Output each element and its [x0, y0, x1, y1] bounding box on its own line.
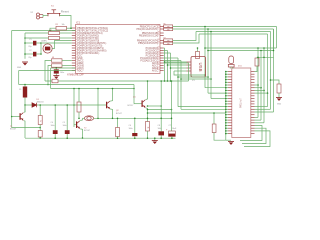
IC2 left pin stub y=82.3 — [228, 81, 232, 83]
IC2 right pin stub y=106.6 — [251, 106, 255, 108]
wire C4 top — [54, 105, 56, 130]
fuse F2 oval — [84, 116, 93, 121]
IC1 right pin stub y=50.5 — [160, 50, 164, 52]
wire T2 emitter — [80, 129, 82, 138]
wire ic pin53 right — [164, 52, 171, 54]
wire hook2 — [242, 128, 266, 143]
junction C7 rail — [171, 137, 173, 139]
IC2 right pin stub y=87.7 — [251, 87, 255, 89]
svg-text:ATMEGA8_DIP: ATMEGA8_DIP — [67, 74, 84, 77]
wire fuse bottom — [24, 98, 26, 113]
wire pin70 drop — [18, 71, 20, 85]
wire R4 left — [45, 61, 52, 82]
wire R18 bottom — [214, 133, 226, 141]
junction IC2 col y=87.7 — [225, 87, 227, 89]
wire C7 bottom — [171, 136, 173, 138]
IC1 right pin stub y=55.5 — [160, 55, 164, 57]
IC2 left pin stub y=74.2 — [228, 73, 232, 75]
wire usb d+ — [168, 64, 187, 66]
wire v178 to IC2 — [178, 106, 226, 108]
wire T2 base — [74, 124, 76, 126]
junction IC2 col y=93.1 — [225, 92, 227, 94]
svg-text:10k: 10k — [62, 24, 65, 26]
IC2 left pin stub y=117.4 — [228, 116, 232, 118]
wire usb d- — [165, 61, 187, 63]
svg-text:Reset: Reset — [61, 10, 69, 14]
wire R4 to pin — [62, 60, 72, 62]
wire v270 down — [270, 32, 272, 110]
resistor R11 — [164, 25, 173, 28]
svg-text:BC557: BC557 — [128, 105, 134, 107]
wire bus y48 — [205, 47, 277, 49]
crystal Q1 — [43, 44, 52, 53]
wire R6 chain top — [39, 105, 41, 116]
junction R6R7 x40 — [39, 127, 41, 129]
junction C8 y118 — [160, 118, 162, 120]
wire xtal gnd stem — [24, 58, 26, 59]
junction IC2 col y=82.3 — [225, 82, 227, 84]
IC2 right pin stub y=90.4 — [251, 89, 255, 91]
capacitor C2 — [33, 52, 36, 57]
junction C6 rail — [134, 137, 136, 139]
junction v178 y77 — [177, 76, 179, 78]
svg-text:ZX1: ZX1 — [238, 66, 243, 68]
junction R15 y48 — [197, 47, 199, 49]
junction IC2 col y=101.2 — [225, 100, 227, 102]
wire IC2 left pin wire y=101.2 — [226, 100, 228, 102]
wire vertical x74 — [73, 89, 75, 128]
wire bus y26.5 — [173, 26, 277, 28]
IC2 left pin stub y=90.4 — [228, 89, 232, 91]
wire C8 bottom — [160, 135, 162, 138]
wire Q3 leg1 — [229, 67, 231, 69]
svg-text:F1: F1 — [19, 89, 21, 91]
IC2 right pin stub y=85.0 — [251, 84, 255, 86]
junction v205 y75 — [204, 74, 206, 76]
junction IC2 col y=76.9 — [225, 76, 227, 78]
IC2 left pin stub y=114.7 — [228, 114, 232, 116]
IC1 left pin stub y=33 — [72, 32, 76, 34]
IC2 left pin stub y=98.5 — [228, 98, 232, 100]
junction R10 tap118 — [147, 118, 149, 120]
junction R9 rail — [117, 137, 119, 139]
transistor Q2 — [106, 101, 110, 109]
wire pin87 — [255, 87, 262, 89]
ground IC2 — [228, 142, 234, 145]
svg-text:C4: C4 — [51, 122, 53, 124]
wire IC2 left pin wire y=87.7 — [226, 87, 228, 89]
wire Q1 base — [134, 103, 142, 105]
resistor R8 — [77, 102, 81, 112]
wire pin70 left — [19, 70, 76, 72]
wire C6 top — [134, 118, 136, 133]
capacitor C4 — [53, 130, 58, 134]
wire R17 top wire — [271, 80, 280, 84]
junction v264 pin90 — [263, 90, 265, 92]
wire IC2 left pin wire y=122.8 — [226, 122, 228, 124]
wire X2 join to switch — [43, 15, 48, 17]
junction IC2 col y=95.8 — [225, 95, 227, 97]
wire R8 bottom — [78, 112, 80, 118]
IC1 right pin stub y=33 — [160, 32, 164, 34]
svg-text:27: 27 — [157, 28, 159, 30]
wire R16 top — [256, 56, 258, 59]
wire R2 to pin — [60, 32, 72, 34]
resistor R9 — [116, 128, 120, 137]
wire v181 — [180, 61, 182, 110]
junction R10 rail — [147, 137, 149, 139]
junction v258 y48 — [257, 47, 259, 49]
resistor R5 — [52, 64, 63, 67]
wire v211 down — [210, 32, 212, 99]
wire IC2 left pin wire y=82.3 — [226, 81, 228, 83]
IC1 right pin stub y=60.5 — [160, 60, 164, 62]
svg-text:BC547: BC547 — [84, 130, 91, 132]
wire usb gnd route — [174, 71, 205, 75]
wire IC2 left pin wire y=90.4 — [226, 89, 228, 91]
wire x134 down — [133, 85, 135, 104]
resistor R2 — [49, 31, 60, 34]
wire xtal left node — [40, 43, 42, 54]
junction v267 pin93 — [267, 92, 269, 94]
wire Q1 emitter — [146, 108, 148, 122]
IC2 right pin stub y=79.6 — [251, 79, 255, 81]
svg-text:USB: USB — [198, 62, 203, 71]
svg-text:100n: 100n — [60, 72, 64, 74]
wire hook1 — [240, 126, 262, 141]
junction v170 pin — [170, 67, 172, 69]
capacitor C7 — [169, 131, 176, 136]
junction IC2 col y=90.4 — [225, 90, 227, 92]
IC2 right pin stub y=130.9 — [251, 130, 255, 132]
wire C2 right — [36, 53, 41, 55]
junction bus106 — [147, 105, 149, 107]
junction v167 pin — [167, 64, 169, 66]
IC2 right pin stub y=109.3 — [251, 108, 255, 110]
wire C5 bottom — [66, 134, 68, 138]
junction bus113 — [147, 112, 149, 114]
connector X2 stub2 — [40, 17, 44, 19]
wire ic pin63 right — [164, 63, 189, 81]
wire C3 lead — [55, 68, 57, 69]
wire R10 bottom — [147, 131, 149, 138]
junction IC2 col y=130.9 — [225, 130, 227, 132]
wire T1 base — [12, 116, 20, 118]
junction v208 top — [207, 28, 209, 30]
wire pin68 left — [51, 67, 76, 69]
junction bus109 — [147, 109, 149, 111]
wire C5 top — [66, 105, 68, 130]
wire C2 left — [25, 53, 33, 55]
wire bus y106 — [148, 105, 162, 107]
wire v211 to IC2 pin — [211, 98, 226, 100]
wire ic pin58 right — [164, 57, 178, 59]
junction v211 top — [210, 31, 212, 33]
junction v164 rail — [164, 80, 166, 82]
wire IC2 left pin wire y=125.5 — [226, 125, 228, 127]
wire C6 bottom — [134, 136, 136, 138]
wire gnd col x25 — [24, 33, 26, 58]
junction v205 y48 — [204, 47, 206, 49]
USB pin stub y=62 — [187, 61, 192, 63]
wire bus y50.5 — [208, 50, 274, 52]
junction R18 bus113 — [213, 112, 215, 114]
IC2 right pin stub y=114.7 — [251, 114, 255, 116]
wire R1 to pin — [67, 27, 72, 29]
junction IC2 col y=106.6 — [225, 106, 227, 108]
junction v164 pin — [164, 61, 166, 63]
IC2 left pin stub y=71.5 — [228, 71, 232, 73]
svg-text:25: 25 — [157, 34, 159, 36]
resistor R6 — [38, 116, 42, 125]
wire xtal right lead — [52, 41, 72, 49]
wire R16 bus — [257, 56, 274, 58]
transistor Q1 — [142, 100, 146, 108]
wire R17 bottom — [278, 93, 280, 98]
junction IC2 col y=103.9 — [225, 103, 227, 105]
ground R17 — [276, 98, 282, 101]
wire R9 bottom — [117, 137, 119, 139]
junction v208 y77 — [207, 76, 209, 78]
svg-text:22p: 22p — [28, 57, 31, 59]
junction v261 y50 — [260, 50, 262, 52]
junction rail138 gnd — [154, 137, 156, 139]
junction v170 rail — [170, 80, 172, 82]
IC2 left pin stub y=103.9 — [228, 103, 232, 105]
svg-text:BC547: BC547 — [10, 129, 17, 131]
wire C7 top — [171, 81, 173, 131]
svg-text:ADC7: ADC7 — [77, 69, 84, 72]
IC2 left pin stub y=109.3 — [228, 108, 232, 110]
IC1 right pin stub y=68 — [160, 67, 164, 69]
junction v205 top — [204, 26, 206, 28]
IC1 left pin stub y=30.5 — [72, 30, 76, 32]
junction v181 y79 — [180, 78, 182, 80]
IC2 right pin stub y=76.9 — [251, 76, 255, 78]
junction R6 y105 — [39, 104, 41, 106]
svg-text:PB1(OC1A/PCINT1): PB1(OC1A/PCINT1) — [137, 28, 159, 31]
wire Q3 leg2 — [232, 67, 234, 69]
junction C6 top — [134, 118, 136, 120]
wire v167 usb — [167, 51, 169, 82]
resistor R17 — [277, 84, 281, 93]
svg-text:C8: C8 — [158, 125, 160, 127]
svg-text:S1: S1 — [51, 6, 54, 8]
wire vcc rail y30 — [12, 30, 76, 32]
IC2 left pin stub y=106.6 — [228, 106, 232, 108]
junction v208 y50 — [207, 50, 209, 52]
IC1 right pin stub y=29 — [160, 28, 164, 30]
svg-text:C6: C6 — [129, 125, 131, 127]
IC2 left pin stub y=76.9 — [228, 76, 232, 78]
wire pin93 — [255, 92, 268, 94]
junction T2 emitter rail — [82, 137, 84, 139]
IC2 right pin stub y=98.5 — [251, 98, 255, 100]
svg-text:22p: 22p — [28, 46, 31, 48]
capacitor C8 — [158, 131, 164, 135]
connector X2 stub1 — [40, 14, 44, 16]
IC2 left pin stub y=133.6 — [228, 133, 232, 135]
wire R3 to pin — [60, 37, 72, 39]
svg-text:C7: C7 — [169, 125, 171, 127]
IC2 left pin stub y=112.0 — [228, 111, 232, 113]
wire left rail x11 — [12, 31, 41, 128]
IC2 right pin stub y=82.3 — [251, 81, 255, 83]
IC1 left pin stub y=35.5 — [72, 35, 76, 37]
wire v258 down — [257, 48, 259, 117]
junction xtal1 — [40, 42, 42, 44]
IC1 left pin stub y=70.5 — [72, 70, 76, 72]
IC1 left pin stub y=38 — [72, 37, 76, 39]
wire bus y34 — [199, 33, 268, 35]
wire T1 collector up — [24, 105, 25, 112]
junction R7 rail — [39, 137, 41, 139]
junction base tap — [11, 116, 13, 118]
resistor R15 — [196, 52, 200, 59]
resistor R14 — [164, 41, 173, 44]
IC1 left pin stub y=43 — [72, 42, 76, 44]
svg-text:R5: R5 — [164, 23, 166, 25]
crystal Q3 — [228, 56, 234, 67]
wire IC2 left pin wire y=76.9 — [226, 76, 228, 78]
wire X2 to S1 — [42, 15, 44, 18]
IC2 right pin stub y=125.5 — [251, 125, 255, 127]
junction C5 top — [66, 104, 68, 106]
capacitor C5 — [65, 130, 70, 134]
svg-text:18: 18 — [76, 69, 78, 71]
junction bus109 C7 — [171, 109, 173, 111]
wire xtal1 to pin — [40, 42, 42, 44]
junction R17 tap — [270, 79, 272, 81]
svg-text:GND: GND — [277, 104, 282, 106]
wire IC2 left pin wire y=128.2 — [226, 127, 228, 129]
junction C8 y81 — [160, 80, 162, 82]
wire T1 emitter down — [24, 121, 25, 138]
junction R9 tap — [117, 118, 119, 120]
wire R5 left — [48, 66, 52, 85]
wire bus y113 — [148, 112, 226, 114]
IC2 left pin stub y=79.6 — [228, 79, 232, 81]
junction R8 bottom — [78, 118, 80, 120]
wire R15 top — [197, 48, 199, 52]
junction C7 y81 — [171, 80, 173, 82]
wire bus y109.5 — [148, 109, 172, 111]
wire IC2 left pin wire y=117.4 — [226, 116, 228, 118]
junction C1 gnd — [24, 42, 26, 44]
connector USB body — [191, 57, 206, 78]
svg-text:100n: 100n — [129, 128, 133, 130]
resistor R18 — [212, 124, 216, 133]
IC2 left pin stub y=122.8 — [228, 122, 232, 124]
junction v273 y50 — [273, 50, 275, 52]
junction IC2 col y=117.4 — [225, 117, 227, 119]
ground C3 — [53, 76, 59, 79]
wire v164 usb — [164, 48, 166, 81]
wire pin120 — [255, 119, 262, 121]
ground xtal — [22, 62, 28, 65]
wire IC2 left pin wire y=85.0 — [226, 84, 228, 86]
diode D1 — [32, 103, 37, 107]
svg-text:1k: 1k — [146, 127, 148, 129]
svg-text:470: 470 — [167, 29, 170, 31]
IC1 right pin stub y=40.5 — [160, 40, 164, 42]
wire gnd stem x154 — [154, 138, 156, 140]
IC2 right pin stub y=103.9 — [251, 103, 255, 105]
wire C1 right — [36, 42, 41, 44]
wire IC2 left column — [225, 72, 227, 141]
wire R16 bottom — [255, 66, 258, 72]
wire v267 down — [267, 34, 269, 107]
wire rail y81 — [45, 80, 189, 82]
wire rail y105 — [25, 104, 106, 106]
svg-text:R7: R7 — [164, 37, 166, 39]
wire IC2 left pin wire y=74.2 — [226, 73, 228, 75]
svg-text:1N4004: 1N4004 — [37, 101, 45, 103]
svg-text:C5: C5 — [63, 122, 65, 124]
wire R2 left — [25, 32, 49, 34]
resistor R7 — [38, 131, 42, 138]
junction IC2 col y=98.5 — [225, 98, 227, 100]
IC1 right pin stub y=63 — [160, 62, 164, 64]
junction IC2 col y=109.3 — [225, 109, 227, 111]
wire v273 down — [273, 29, 275, 51]
resistor R16 — [255, 58, 259, 66]
wire ic pin50 right — [164, 50, 168, 52]
fuse F1 — [23, 87, 27, 98]
wire C1 left — [25, 42, 33, 44]
USB pin stub y=71 — [187, 70, 192, 72]
junction x25 y105 — [24, 104, 26, 106]
IC2 right pin stub y=112.0 — [251, 111, 255, 113]
IC2 right pin stub y=93.1 — [251, 92, 255, 94]
capacitor C3 — [54, 69, 59, 73]
resistor R1 — [56, 26, 67, 30]
wire R1 left lead — [50, 28, 56, 30]
IC2 right pin stub y=122.8 — [251, 122, 255, 124]
svg-text:+: + — [166, 129, 168, 132]
svg-text:BC547: BC547 — [116, 113, 122, 115]
IC1 right pin stub y=65.5 — [160, 65, 164, 67]
wire pin90 — [255, 89, 265, 91]
wire bus y79 — [181, 78, 211, 80]
IC1 right pin stub y=70.5 — [160, 70, 164, 72]
junction C4 top — [54, 104, 56, 106]
IC1 right pin stub y=35.5 — [160, 35, 164, 37]
svg-text:PB5(SCK/PCINT5): PB5(SCK/PCINT5) — [138, 42, 158, 45]
wire bus y29 — [173, 28, 274, 30]
junction IC2 col y=125.5 — [225, 125, 227, 127]
wire ic pin60 right — [164, 60, 181, 62]
IC1 left pin stub y=48 — [72, 47, 76, 49]
junction IC2 col y=133.6 — [225, 133, 227, 135]
junction pairA bot — [24, 37, 26, 39]
wire pin85 — [255, 84, 259, 86]
junction Q1 col — [147, 80, 149, 82]
svg-text:Q1: Q1 — [133, 97, 136, 99]
IC2 left pin stub y=87.7 — [228, 87, 232, 89]
wire rail y88 — [51, 88, 134, 90]
junction v258 pin85 — [257, 84, 259, 86]
ground bottom mid — [152, 141, 158, 144]
junction x134 y88 — [133, 88, 135, 90]
wire v261 down — [260, 51, 262, 121]
wire IC2 gnd route — [226, 139, 231, 141]
capacitor C1 — [33, 41, 36, 46]
wire IC2 left pin wire y=106.6 — [226, 106, 228, 108]
junction IC2 col y=114.7 — [225, 114, 227, 116]
junction IC2 col y=112.0 — [225, 111, 227, 113]
IC1 right pin stub y=58 — [160, 57, 164, 59]
